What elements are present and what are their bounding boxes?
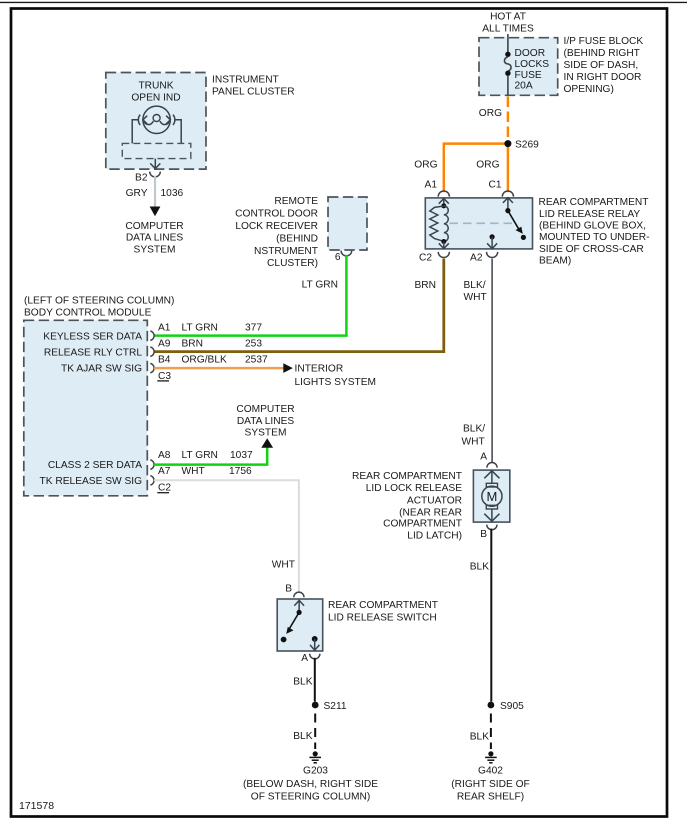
connector C3 label xyxy=(157,371,171,382)
svg-text:TK AJAR SW SIG: TK AJAR SW SIG xyxy=(61,364,142,375)
relay switch blade with arrowhead xyxy=(508,211,520,232)
node: HOT AT ALL TIMES feed label xyxy=(482,12,534,35)
svg-text:(LEFT OF STEERING COLUMN): (LEFT OF STEERING COLUMN) xyxy=(24,295,174,306)
svg-text:(BELOW DASH, RIGHT SIDE: (BELOW DASH, RIGHT SIDE xyxy=(243,779,378,790)
motor M symbol xyxy=(482,483,502,509)
svg-text:SIDE OF DASH,: SIDE OF DASH, xyxy=(564,60,639,71)
svg-text:1037: 1037 xyxy=(230,450,253,461)
svg-text:20A: 20A xyxy=(515,81,533,92)
svg-text:A2: A2 xyxy=(470,253,483,264)
svg-text:REMOTE: REMOTE xyxy=(274,196,318,207)
pin row A7 xyxy=(158,466,252,477)
svg-text:RELEASE RLY CTRL: RELEASE RLY CTRL xyxy=(44,347,142,358)
switch lower-left contact xyxy=(281,637,287,643)
ground G203 xyxy=(243,751,378,802)
I/P fuse block box xyxy=(479,38,558,96)
svg-text:SYSTEM: SYSTEM xyxy=(245,428,287,439)
svg-text:S269: S269 xyxy=(515,140,539,151)
switch A contact and arrow xyxy=(312,636,318,642)
pin row A1 xyxy=(158,323,262,334)
svg-text:C1: C1 xyxy=(488,180,501,191)
connector cap B (switch) xyxy=(294,592,304,597)
svg-text:DATA LINES: DATA LINES xyxy=(237,416,295,427)
svg-text:OPEN IND: OPEN IND xyxy=(131,93,180,104)
svg-text:KEYLESS SER DATA: KEYLESS SER DATA xyxy=(43,331,142,342)
svg-text:LID RELEASE RELAY: LID RELEASE RELAY xyxy=(539,209,640,220)
actuator bottom arrow xyxy=(491,509,493,521)
connector arc B4 xyxy=(150,363,154,372)
svg-text:B: B xyxy=(480,529,487,540)
svg-text:BLK/: BLK/ xyxy=(463,424,485,435)
label: I/P FUSE BLOCK location xyxy=(564,36,644,95)
cluster internal dashed sub-box xyxy=(122,143,191,158)
svg-text:REAR COMPARTMENT: REAR COMPARTMENT xyxy=(352,471,462,482)
svg-text:SIDE OF CROSS-CAR: SIDE OF CROSS-CAR xyxy=(539,244,644,255)
svg-text:REAR COMPARTMENT: REAR COMPARTMENT xyxy=(328,600,438,611)
cluster output arrow to B2 xyxy=(154,159,156,169)
connector cup B (actuator) xyxy=(487,525,497,530)
svg-text:(NEAR REAR: (NEAR REAR xyxy=(399,507,462,518)
svg-text:ORG: ORG xyxy=(414,160,437,171)
label: remote control door lock receiver xyxy=(235,196,318,269)
connector arc A9 xyxy=(150,347,154,356)
svg-text:FUSE: FUSE xyxy=(515,70,542,81)
relay switch fixed contact xyxy=(505,208,510,213)
pin row A8 xyxy=(158,450,253,461)
svg-text:INSTRUMENT: INSTRUMENT xyxy=(212,75,279,86)
svg-text:171578: 171578 xyxy=(19,800,54,812)
svg-text:A8: A8 xyxy=(158,450,171,461)
wire: LT GRN receiver 6 to BCM A1 xyxy=(154,255,346,336)
svg-text:OF STEERING COLUMN): OF STEERING COLUMN) xyxy=(251,792,370,803)
switch box: rear compartment lid release switch xyxy=(277,599,323,651)
svg-text:ACTUATOR: ACTUATOR xyxy=(407,495,462,506)
svg-text:LIGHTS SYSTEM: LIGHTS SYSTEM xyxy=(295,377,377,388)
wire: BLK/WHT relay A2 down to actuator A xyxy=(491,259,493,463)
wire: ORG solid S269 to C1 xyxy=(507,147,510,192)
connector arc A1 xyxy=(150,331,154,340)
svg-text:ORG: ORG xyxy=(479,108,502,119)
svg-text:LT GRN: LT GRN xyxy=(302,280,338,291)
svg-text:LOCKS: LOCKS xyxy=(515,59,550,70)
svg-text:IN RIGHT DOOR: IN RIGHT DOOR xyxy=(564,72,642,83)
svg-text:S905: S905 xyxy=(500,701,524,712)
svg-text:LID LATCH): LID LATCH) xyxy=(407,531,462,542)
fuse: DOOR LOCKS FUSE 20A xyxy=(504,38,549,96)
svg-text:DOOR: DOOR xyxy=(515,48,546,59)
svg-text:BLK/: BLK/ xyxy=(464,280,486,291)
connector arc A8 xyxy=(150,460,154,469)
svg-text:B2: B2 xyxy=(135,173,148,184)
connector C2 label xyxy=(157,483,171,494)
wire: BLK actuator B to S905 xyxy=(490,529,492,702)
svg-text:I/P FUSE BLOCK: I/P FUSE BLOCK xyxy=(564,36,644,47)
svg-text:COMPARTMENT: COMPARTMENT xyxy=(383,519,462,530)
svg-text:BRN: BRN xyxy=(182,338,204,349)
svg-text:BLK: BLK xyxy=(293,731,312,742)
svg-text:(RIGHT SIDE OF: (RIGHT SIDE OF xyxy=(451,779,530,790)
connector arc A7 xyxy=(150,476,154,485)
label: relay name/location xyxy=(539,197,650,267)
switch top arrow xyxy=(294,600,304,605)
svg-text:LT GRN: LT GRN xyxy=(182,323,218,334)
svg-text:ORG: ORG xyxy=(476,160,499,171)
svg-text:LID RELEASE SWITCH: LID RELEASE SWITCH xyxy=(328,612,437,623)
svg-text:REAR COMPARTMENT: REAR COMPARTMENT xyxy=(539,197,649,208)
svg-text:WHT: WHT xyxy=(182,466,205,477)
svg-text:1036: 1036 xyxy=(161,188,184,199)
svg-text:LOCK RECEIVER: LOCK RECEIVER xyxy=(235,221,318,232)
svg-text:A: A xyxy=(301,653,308,664)
svg-text:BLK: BLK xyxy=(470,732,489,743)
ground G402 xyxy=(451,751,530,802)
svg-text:G402: G402 xyxy=(478,765,503,776)
wire: ORG/BLK B4 to interior lights xyxy=(154,367,284,370)
svg-text:BEAM): BEAM) xyxy=(539,256,571,267)
wire: BLK dashed S905 to G402 xyxy=(490,714,492,750)
svg-text:A7: A7 xyxy=(158,466,171,477)
relay coil C2 arrow xyxy=(443,242,445,249)
relay coil resistor zigzag xyxy=(430,206,444,241)
svg-text:BLK: BLK xyxy=(470,562,489,573)
label: computer data lines system (mid) xyxy=(236,404,294,439)
wire: BRN from relay C2 to BCM A9 xyxy=(154,259,444,352)
relay box: rear compartment lid release relay xyxy=(425,198,532,249)
relay coil inductor loops xyxy=(444,206,448,242)
svg-text:BLK: BLK xyxy=(293,677,312,688)
svg-text:BODY CONTROL MODULE: BODY CONTROL MODULE xyxy=(24,308,152,319)
svg-text:S211: S211 xyxy=(324,701,347,712)
instrument panel cluster box xyxy=(106,73,206,170)
connector cap A (actuator) xyxy=(487,463,497,468)
svg-text:INTERIOR: INTERIOR xyxy=(295,363,344,374)
svg-text:WHT: WHT xyxy=(464,292,487,303)
svg-text:WHT: WHT xyxy=(272,560,295,571)
svg-text:C3: C3 xyxy=(158,371,171,382)
svg-text:C2: C2 xyxy=(419,253,432,264)
svg-text:A1: A1 xyxy=(425,180,438,191)
svg-text:253: 253 xyxy=(245,338,262,349)
svg-text:TRUNK: TRUNK xyxy=(138,81,173,92)
svg-text:WHT: WHT xyxy=(462,437,485,448)
relay switch end contact xyxy=(521,235,526,240)
svg-text:ORG/BLK: ORG/BLK xyxy=(182,355,227,366)
label: trunk open ind xyxy=(131,81,180,104)
label: BCM location xyxy=(24,295,174,318)
svg-text:LT GRN: LT GRN xyxy=(182,450,218,461)
svg-text:A9: A9 xyxy=(158,338,171,349)
svg-text:LID LOCK RELEASE: LID LOCK RELEASE xyxy=(366,483,462,494)
arrow to computer data lines system xyxy=(150,207,161,217)
svg-text:1756: 1756 xyxy=(229,466,252,477)
svg-text:(BEHIND: (BEHIND xyxy=(276,233,318,244)
svg-text:DATA LINES: DATA LINES xyxy=(126,233,184,244)
relay coil top node xyxy=(441,203,446,208)
svg-text:C2: C2 xyxy=(158,483,171,494)
connector cup B2 xyxy=(150,172,161,177)
svg-text:CLUSTER): CLUSTER) xyxy=(267,258,318,269)
wire: BLK switch A to S211 xyxy=(314,658,316,702)
svg-text:2537: 2537 xyxy=(245,355,268,366)
lamp terminal legs xyxy=(132,120,139,144)
svg-text:MOUNTED TO UNDER-: MOUNTED TO UNDER- xyxy=(539,232,650,243)
arrow to computer data lines system xyxy=(261,438,273,448)
label: actuator name/location xyxy=(352,471,462,542)
label: interior lights system xyxy=(295,363,377,388)
label: switch name xyxy=(328,600,438,623)
svg-text:M: M xyxy=(486,489,497,504)
svg-text:REAR SHELF): REAR SHELF) xyxy=(457,792,524,803)
relay mechanical link dashed xyxy=(450,222,513,224)
wire: WHT A7 down to switch B xyxy=(154,480,299,592)
svg-text:CONTROL DOOR: CONTROL DOOR xyxy=(235,208,318,219)
connector cap C1 xyxy=(502,191,513,197)
connector cup C2 xyxy=(438,252,449,258)
svg-text:COMPUTER: COMPUTER xyxy=(125,221,183,232)
svg-text:SYSTEM: SYSTEM xyxy=(134,244,176,255)
top hairline xyxy=(0,1,687,3)
svg-text:GRY: GRY xyxy=(126,188,148,199)
svg-text:ALL TIMES: ALL TIMES xyxy=(482,24,534,35)
wire: ORG branch S269 to A1 xyxy=(444,144,508,193)
svg-text:6: 6 xyxy=(335,252,341,263)
arrow to interior lights system xyxy=(283,363,293,373)
svg-text:G203: G203 xyxy=(303,765,328,776)
connector cap A1 xyxy=(438,191,449,197)
wire: GRY from B2 xyxy=(154,176,156,207)
connector cup A (switch) xyxy=(310,654,320,659)
body control module box xyxy=(24,320,148,496)
pin row B4 xyxy=(158,355,268,366)
remote control door lock receiver box xyxy=(328,197,367,250)
switch blade with arrowhead xyxy=(289,612,299,629)
svg-text:PANEL CLUSTER: PANEL CLUSTER xyxy=(212,87,295,98)
connector cup pin 6 xyxy=(341,251,352,256)
splice S269 xyxy=(504,140,511,147)
svg-text:OPENING): OPENING) xyxy=(564,84,614,95)
svg-text:CLASS 2 SER DATA: CLASS 2 SER DATA xyxy=(48,460,142,471)
svg-text:(BEHIND RIGHT: (BEHIND RIGHT xyxy=(564,48,640,59)
actuator box: rear compartment lid lock release actuator xyxy=(473,470,509,522)
svg-text:A: A xyxy=(480,452,487,463)
svg-text:TK RELEASE SW SIG: TK RELEASE SW SIG xyxy=(40,476,143,487)
label: computer data lines system (left) xyxy=(125,221,183,255)
label: instrument panel cluster xyxy=(212,75,295,98)
svg-text:B: B xyxy=(285,584,292,595)
wire: BLK dashed S211 to G203 xyxy=(314,714,316,750)
pin row A9 xyxy=(158,338,262,349)
svg-text:377: 377 xyxy=(245,323,262,334)
svg-text:BRN: BRN xyxy=(414,280,436,291)
svg-text:B4: B4 xyxy=(158,355,171,366)
splice S905 xyxy=(488,702,495,709)
svg-text:COMPUTER: COMPUTER xyxy=(236,404,294,415)
wire: LT GRN A8 to computer data lines xyxy=(154,448,267,465)
relay switch C1 arrow xyxy=(503,198,513,203)
wire: ORG dashed fuse to S269 xyxy=(507,97,510,141)
actuator top arrow xyxy=(484,471,499,479)
relay coil branch A1 arrow xyxy=(439,199,449,204)
svg-text:HOT AT: HOT AT xyxy=(490,12,526,23)
wire: feed stub into fuse block xyxy=(507,34,509,38)
svg-text:NSTRUMENT: NSTRUMENT xyxy=(254,246,318,257)
relay A2 contact and arrow xyxy=(490,234,495,239)
lamp TRUNK OPEN IND xyxy=(138,106,175,133)
connector cup A2 xyxy=(487,252,498,258)
svg-text:A1: A1 xyxy=(158,323,171,334)
svg-text:(BEHIND GLOVE BOX,: (BEHIND GLOVE BOX, xyxy=(539,221,646,232)
splice S211 xyxy=(312,702,319,709)
BCM internal signal labels xyxy=(40,331,143,487)
relay coil bottom node xyxy=(441,239,446,244)
switch top contact xyxy=(297,610,302,615)
